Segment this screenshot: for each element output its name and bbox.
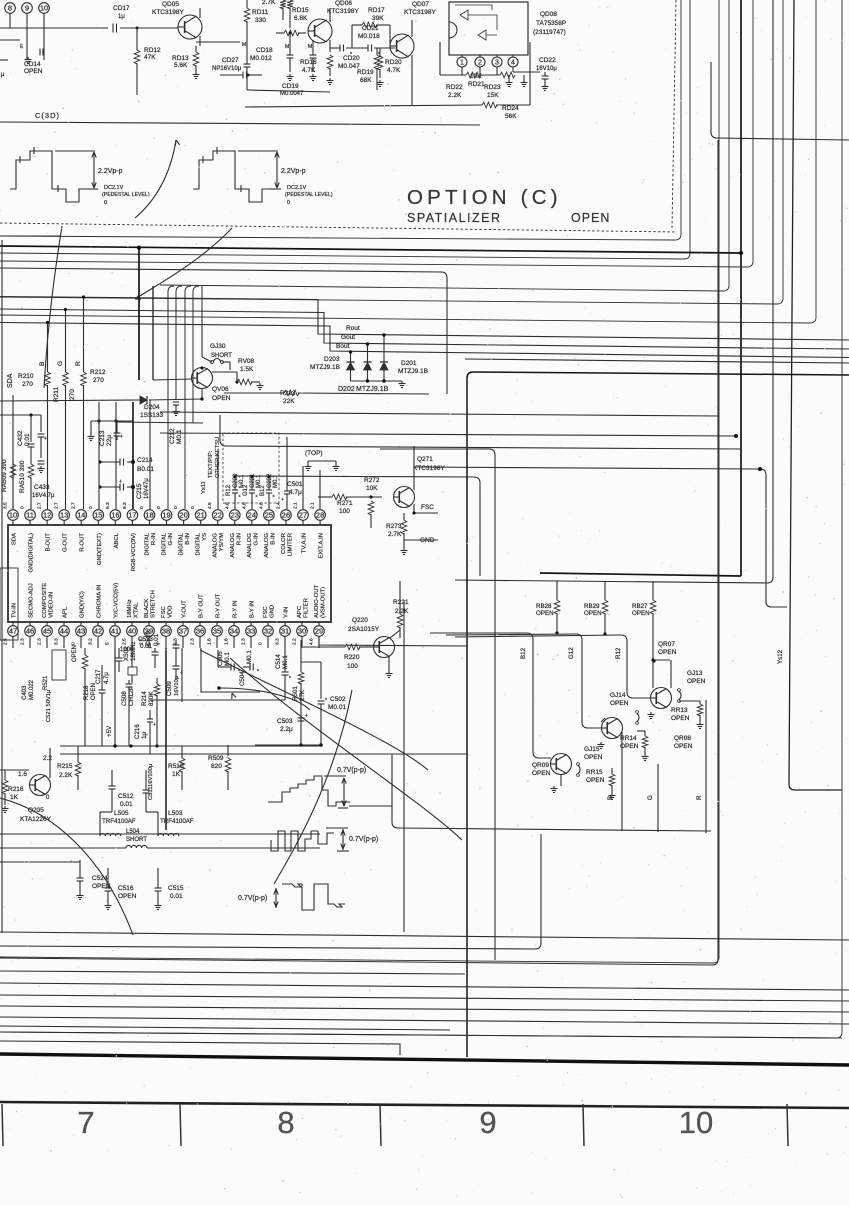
svg-text:16V10μ: 16V10μ <box>536 66 557 72</box>
svg-text:CD17: CD17 <box>113 5 130 12</box>
svg-text:COMPOSITE: COMPOSITE <box>42 583 48 618</box>
svg-text:D201: D201 <box>401 360 417 367</box>
svg-text:0: 0 <box>88 506 94 509</box>
svg-text:RR13: RR13 <box>671 707 688 714</box>
svg-text:6.8K: 6.8K <box>294 15 308 22</box>
svg-text:1SS133: 1SS133 <box>140 412 164 419</box>
svg-text:GJ30: GJ30 <box>210 343 226 350</box>
svg-text:M0.022: M0.022 <box>29 679 35 700</box>
svg-text:OPEN: OPEN <box>632 610 650 617</box>
svg-text:KTC3198Y: KTC3198Y <box>404 9 436 16</box>
svg-text:RD13: RD13 <box>172 55 189 62</box>
svg-text:2.1: 2.1 <box>293 502 299 509</box>
svg-text:(TOP): (TOP) <box>305 450 323 457</box>
svg-text:19: 19 <box>162 511 170 520</box>
svg-text:2.2Vp-p: 2.2Vp-p <box>98 168 123 175</box>
svg-text:KTC3198Y: KTC3198Y <box>327 8 359 15</box>
svg-text:R-IN: R-IN <box>236 533 242 545</box>
svg-text:41: 41 <box>111 627 119 636</box>
svg-text:820: 820 <box>211 763 222 770</box>
svg-text:Q220: Q220 <box>352 617 368 624</box>
svg-text:R212: R212 <box>90 369 106 376</box>
svg-text:100: 100 <box>339 508 350 515</box>
svg-text:42: 42 <box>94 627 102 636</box>
svg-text:R521: R521 <box>43 675 49 690</box>
svg-text:SHORT: SHORT <box>126 837 147 843</box>
svg-text:QR07: QR07 <box>658 641 675 648</box>
svg-text:31: 31 <box>281 627 289 636</box>
svg-text:0: 0 <box>139 506 145 509</box>
svg-text:RA509 390: RA509 390 <box>1 459 8 492</box>
svg-text:C216: C216 <box>134 724 141 739</box>
svg-text:26: 26 <box>282 511 290 520</box>
svg-text:OPEN: OPEN <box>674 743 693 750</box>
svg-text:38: 38 <box>162 627 170 636</box>
svg-text:0: 0 <box>173 506 179 509</box>
svg-text:TRF4100AF: TRF4100AF <box>160 818 194 825</box>
svg-text:21: 21 <box>196 511 204 520</box>
svg-text:RD15: RD15 <box>292 7 309 14</box>
svg-text:ANALOG: ANALOG <box>264 533 270 558</box>
svg-text:R221: R221 <box>393 599 409 606</box>
svg-text:SDA: SDA <box>7 373 14 388</box>
svg-text:B0.01: B0.01 <box>137 466 154 473</box>
svg-text:D203: D203 <box>324 356 340 363</box>
svg-text:MTZJ9.1B: MTZJ9.1B <box>398 368 428 375</box>
svg-text:3.2: 3.2 <box>88 638 94 645</box>
svg-text:CD22: CD22 <box>539 57 556 64</box>
svg-text:GND: GND <box>270 605 276 618</box>
svg-text:B-Y OUT: B-Y OUT <box>199 594 205 618</box>
svg-text:25: 25 <box>265 511 273 520</box>
svg-text:M: M <box>308 44 312 50</box>
svg-text:RD24: RD24 <box>502 105 519 112</box>
svg-text:DC2.1V: DC2.1V <box>287 185 307 191</box>
svg-text:QD08: QD08 <box>540 11 557 18</box>
svg-text:VDD: VDD <box>168 606 174 618</box>
svg-text:2.7K: 2.7K <box>388 531 402 538</box>
svg-text:D202: D202 <box>338 386 355 393</box>
svg-text:0.01: 0.01 <box>120 801 133 808</box>
svg-text:R: R <box>75 361 82 366</box>
svg-text:0.01: 0.01 <box>153 633 160 646</box>
svg-text:+: + <box>281 497 284 503</box>
svg-text:C502: C502 <box>330 696 346 703</box>
svg-text:QR08: QR08 <box>674 735 691 742</box>
svg-text:1: 1 <box>460 60 464 67</box>
svg-text:RB28: RB28 <box>536 603 552 610</box>
svg-text:B12: B12 <box>520 647 527 659</box>
svg-text:4.7μ: 4.7μ <box>104 672 110 684</box>
svg-text:G12: G12 <box>568 647 575 659</box>
svg-text:GND(DIGITAL): GND(DIGITAL) <box>29 533 35 573</box>
svg-text:TA75358P: TA75358P <box>536 20 566 27</box>
svg-text:COLOR: COLOR <box>281 533 287 554</box>
svg-text:R271: R271 <box>337 500 353 507</box>
svg-text:3: 3 <box>495 60 499 67</box>
svg-text:2.2μ: 2.2μ <box>280 726 293 733</box>
svg-text:OPEN: OPEN <box>532 770 551 777</box>
svg-text:2.5: 2.5 <box>122 638 128 645</box>
svg-text:CD18: CD18 <box>256 47 273 54</box>
svg-text:56K: 56K <box>505 113 517 120</box>
svg-text:46: 46 <box>26 627 34 636</box>
svg-text:B-IN: B-IN <box>270 533 276 545</box>
svg-text:Y-IN: Y-IN <box>284 607 290 618</box>
svg-text:7: 7 <box>77 1105 94 1140</box>
svg-text:4: 4 <box>511 60 515 67</box>
svg-text:G-IN: G-IN <box>253 533 259 545</box>
svg-text:0.01: 0.01 <box>170 893 183 900</box>
svg-text:4.7K: 4.7K <box>387 67 401 74</box>
svg-text:CHROMA IN: CHROMA IN <box>97 585 103 618</box>
svg-text:C217: C217 <box>96 669 102 684</box>
svg-text:MTZJ9.1B: MTZJ9.1B <box>310 364 340 371</box>
svg-text:2.3: 2.3 <box>20 638 26 645</box>
svg-text:37: 37 <box>179 627 187 636</box>
svg-text:Ys12: Ys12 <box>777 649 784 664</box>
svg-text:RB27: RB27 <box>632 603 648 610</box>
svg-text:5: 5 <box>105 642 111 645</box>
svg-text:2.2Vp-p: 2.2Vp-p <box>281 168 306 175</box>
svg-text:+: + <box>305 713 308 719</box>
svg-text:RD20: RD20 <box>385 59 402 66</box>
svg-text:TEXT/PIP:: TEXT/PIP: <box>208 450 214 478</box>
svg-text:R211: R211 <box>53 387 60 402</box>
svg-text:+: + <box>120 434 123 440</box>
svg-text:27: 27 <box>299 511 307 520</box>
svg-text:G-IN: G-IN <box>168 533 174 545</box>
svg-text:10: 10 <box>9 511 17 520</box>
svg-text:C501: C501 <box>287 481 303 488</box>
svg-text:TV-IN: TV-IN <box>12 603 18 618</box>
svg-text:R220: R220 <box>344 654 360 661</box>
svg-text:10: 10 <box>40 4 48 13</box>
svg-text:RA510 390: RA510 390 <box>19 460 26 493</box>
svg-text:OPEN: OPEN <box>658 649 677 656</box>
svg-text:9: 9 <box>479 1105 496 1140</box>
svg-text:DIGITAL: DIGITAL <box>162 532 168 555</box>
svg-text:47K: 47K <box>144 54 156 61</box>
svg-text:68K: 68K <box>360 77 372 84</box>
svg-text:GJ15: GJ15 <box>584 746 600 753</box>
svg-text:0: 0 <box>20 506 26 509</box>
svg-text:1.8: 1.8 <box>207 638 213 645</box>
svg-text:1μ: 1μ <box>118 14 125 20</box>
svg-text:VIDEO-IN: VIDEO-IN <box>49 592 55 618</box>
svg-text:OPEN: OPEN <box>610 700 629 707</box>
svg-text:18MHz: 18MHz <box>130 641 137 661</box>
svg-text:15K: 15K <box>487 92 499 99</box>
svg-text:20: 20 <box>179 511 187 520</box>
svg-text:M0.1: M0.1 <box>273 474 279 488</box>
svg-text:x: x <box>273 493 275 498</box>
svg-text:2.7: 2.7 <box>37 502 43 509</box>
svg-text:22K: 22K <box>283 398 295 405</box>
svg-text:18: 18 <box>145 511 153 520</box>
svg-text:DIGITAL: DIGITAL <box>144 532 150 555</box>
svg-text:2.2K: 2.2K <box>448 92 462 99</box>
svg-text:Ys11: Ys11 <box>201 481 207 494</box>
svg-text:33: 33 <box>247 627 255 636</box>
svg-text:KTC3198Y: KTC3198Y <box>152 9 184 16</box>
svg-text:22μ: 22μ <box>106 435 113 446</box>
svg-text:R214: R214 <box>141 691 148 706</box>
svg-text:QD07: QD07 <box>412 1 429 8</box>
svg-text:OPEN: OPEN <box>212 395 231 402</box>
svg-text:RD12: RD12 <box>144 47 161 54</box>
svg-text:2: 2 <box>478 60 482 67</box>
svg-text:OPEN: OPEN <box>536 610 554 617</box>
svg-text:C215: C215 <box>136 483 143 499</box>
svg-text:RD22: RD22 <box>446 84 463 91</box>
svg-text:μ: μ <box>1 72 5 78</box>
svg-text:16V10μ: 16V10μ <box>174 676 180 696</box>
svg-text:40: 40 <box>128 627 136 636</box>
svg-text:D204: D204 <box>144 404 160 411</box>
svg-text:KTC3198Y: KTC3198Y <box>413 465 445 472</box>
svg-text:QD06: QD06 <box>335 0 352 7</box>
svg-text:10K: 10K <box>366 485 378 492</box>
svg-text:4.8: 4.8 <box>258 502 264 509</box>
svg-text:Q271: Q271 <box>417 456 433 463</box>
svg-text:RD11: RD11 <box>252 9 269 16</box>
svg-text:0: 0 <box>104 200 107 206</box>
svg-text:47: 47 <box>9 627 17 636</box>
svg-text:1.5K: 1.5K <box>240 366 254 373</box>
svg-text:OPEN: OPEN <box>620 743 639 750</box>
svg-text:34: 34 <box>230 627 238 636</box>
svg-text:270: 270 <box>69 389 76 400</box>
svg-text:G12: G12 <box>243 484 249 496</box>
svg-text:GND(TEXT): GND(TEXT) <box>97 533 103 565</box>
svg-text:9: 9 <box>25 4 29 13</box>
svg-text:13: 13 <box>60 511 68 520</box>
svg-text:G: G <box>647 795 654 800</box>
svg-text:RGB-VCC(9V): RGB-VCC(9V) <box>131 533 137 571</box>
svg-text:x: x <box>289 674 291 679</box>
svg-text:C503: C503 <box>277 718 293 725</box>
svg-text:ANALOG: ANALOG <box>213 533 219 558</box>
svg-text:(PEDESTAL LEVEL): (PEDESTAL LEVEL) <box>102 192 150 198</box>
svg-text:R-Y IN: R-Y IN <box>233 600 239 618</box>
svg-text:RD19: RD19 <box>357 69 374 76</box>
svg-text:R215: R215 <box>57 763 73 770</box>
svg-text:C504: C504 <box>239 671 246 686</box>
svg-text:0.7V(p-p): 0.7V(p-p) <box>337 767 366 774</box>
svg-text:3.3: 3.3 <box>275 638 281 645</box>
svg-text:NP16V10μ: NP16V10μ <box>212 66 242 72</box>
svg-text:DIGITAL: DIGITAL <box>196 532 202 555</box>
svg-text:28: 28 <box>316 511 324 520</box>
svg-text:STRETCH: STRETCH <box>151 590 157 618</box>
svg-text:C403: C403 <box>22 685 28 700</box>
svg-text:0.7V(p-p): 0.7V(p-p) <box>349 836 378 843</box>
svg-text:24: 24 <box>248 511 256 520</box>
svg-text:C509: C509 <box>166 681 173 696</box>
svg-text:11: 11 <box>26 511 34 520</box>
svg-text:3.3: 3.3 <box>54 638 60 645</box>
svg-text:x: x <box>257 667 259 672</box>
svg-text:RR14: RR14 <box>620 735 637 742</box>
svg-text:FSC: FSC <box>263 605 269 618</box>
svg-text:2.7K: 2.7K <box>262 0 276 6</box>
svg-text:RR15: RR15 <box>586 769 603 776</box>
svg-text:C51116V100μ: C51116V100μ <box>148 764 154 800</box>
svg-text:B-OUT: B-OUT <box>46 533 52 552</box>
svg-text:2.4: 2.4 <box>275 502 281 509</box>
svg-text:8: 8 <box>8 4 12 13</box>
svg-text:QV06: QV06 <box>212 386 229 393</box>
svg-text:(VSM-OUT): (VSM-OUT) <box>321 587 327 618</box>
svg-text:1K: 1K <box>172 771 181 778</box>
svg-text:18MHz: 18MHz <box>127 599 133 618</box>
svg-text:Bout: Bout <box>336 343 350 350</box>
svg-text:0.7V(p-p): 0.7V(p-p) <box>238 895 267 902</box>
svg-text:2.3: 2.3 <box>37 638 43 645</box>
svg-text:C512: C512 <box>118 793 134 800</box>
svg-text:C433: C433 <box>34 484 50 491</box>
svg-text:+: + <box>153 722 156 728</box>
svg-text:2.7: 2.7 <box>54 502 60 509</box>
svg-text:G-OUT: G-OUT <box>63 533 69 552</box>
svg-text:12: 12 <box>43 511 51 520</box>
svg-text:DIGITAL: DIGITAL <box>179 532 185 555</box>
svg-text:2.3: 2.3 <box>190 638 196 645</box>
svg-text:1.8: 1.8 <box>224 638 230 645</box>
svg-text:x: x <box>325 696 327 701</box>
svg-text:RV08: RV08 <box>238 358 255 365</box>
svg-text:R216: R216 <box>8 786 24 793</box>
svg-text:C516: C516 <box>118 885 134 892</box>
svg-text:17: 17 <box>128 511 136 520</box>
svg-text:QR09: QR09 <box>532 762 549 769</box>
svg-text:4.8: 4.8 <box>224 502 230 509</box>
svg-text:R: R <box>696 795 703 800</box>
svg-text:B: B <box>607 796 614 800</box>
svg-text:R273: R273 <box>386 523 402 530</box>
svg-text:10: 10 <box>679 1105 713 1140</box>
svg-text:RD16: RD16 <box>300 59 317 66</box>
svg-text:R12: R12 <box>226 484 232 496</box>
svg-text:45: 45 <box>43 627 51 636</box>
svg-text:39K: 39K <box>372 15 384 22</box>
svg-text:ANALOG: ANALOG <box>230 533 236 558</box>
svg-text:22: 22 <box>214 511 222 520</box>
svg-text:43: 43 <box>77 627 85 636</box>
svg-text:15: 15 <box>94 511 102 520</box>
svg-text:X'TAL: X'TAL <box>134 602 140 618</box>
svg-text:2.2: 2.2 <box>292 638 298 645</box>
svg-text:2SA1015Y: 2SA1015Y <box>348 626 380 633</box>
svg-text:2.1: 2.1 <box>310 502 316 509</box>
svg-text:R509: R509 <box>208 755 224 762</box>
svg-text:APL: APL <box>63 606 69 618</box>
svg-text:M0.0047: M0.0047 <box>280 91 304 97</box>
svg-text:YS: YS <box>202 533 208 541</box>
svg-text:LIMITER: LIMITER <box>287 533 293 556</box>
svg-text:0: 0 <box>190 506 196 509</box>
svg-text:820K: 820K <box>148 691 155 706</box>
svg-text:C213: C213 <box>99 430 106 446</box>
svg-text:OPEN: OPEN <box>671 715 690 722</box>
svg-text:R501: R501 <box>292 686 299 701</box>
svg-text:0: 0 <box>156 506 162 509</box>
svg-text:OPEN: OPEN <box>571 211 610 225</box>
svg-text:GND(Y/C): GND(Y/C) <box>80 591 86 618</box>
svg-text:M: M <box>285 44 289 50</box>
svg-text:SPATIALIZER: SPATIALIZER <box>407 211 502 225</box>
svg-text:OPEN: OPEN <box>586 777 605 784</box>
svg-text:1μ: 1μ <box>141 732 148 739</box>
svg-text:BLACK: BLACK <box>144 599 150 618</box>
svg-text:AUDIO-OUT: AUDIO-OUT <box>314 585 320 618</box>
svg-text:1.6: 1.6 <box>18 771 27 778</box>
svg-text:M0.012: M0.012 <box>250 55 272 62</box>
svg-text:ABCL: ABCL <box>114 532 120 548</box>
svg-text:2.2: 2.2 <box>43 755 52 762</box>
svg-text:MTZJ9.1B: MTZJ9.1B <box>356 386 389 393</box>
svg-text:OPEN: OPEN <box>584 754 603 761</box>
svg-text:R510: R510 <box>168 763 184 770</box>
svg-text:SHORT: SHORT <box>211 353 232 359</box>
svg-text:C510: C510 <box>145 631 152 646</box>
svg-text:R-Y OUT: R-Y OUT <box>216 593 222 618</box>
svg-text:+5V: +5V <box>106 725 113 737</box>
svg-text:4.6: 4.6 <box>309 638 315 645</box>
svg-text:ANALOG: ANALOG <box>247 533 253 558</box>
svg-text:QD05: QD05 <box>162 1 179 8</box>
svg-text:2.9: 2.9 <box>3 638 9 645</box>
svg-text:16V47μ: 16V47μ <box>144 478 150 499</box>
svg-text:330: 330 <box>255 17 266 24</box>
svg-text:L503: L503 <box>168 810 183 817</box>
svg-text:C524: C524 <box>92 875 108 882</box>
svg-text:2.2K: 2.2K <box>59 772 73 779</box>
svg-text:TRF4100AF: TRF4100AF <box>102 818 136 825</box>
svg-text:R12: R12 <box>615 647 622 659</box>
svg-text:270: 270 <box>22 381 33 388</box>
svg-text:R210: R210 <box>18 373 34 380</box>
svg-text:CD27: CD27 <box>222 57 239 64</box>
svg-text:x: x <box>256 493 258 498</box>
svg-text:x: x <box>350 50 352 55</box>
svg-text:23: 23 <box>231 511 239 520</box>
svg-text:RD21: RD21 <box>468 81 485 88</box>
svg-text:FILTER: FILTER <box>304 598 310 618</box>
svg-text:36: 36 <box>196 627 204 636</box>
svg-text:(23119747): (23119747) <box>533 29 566 36</box>
svg-text:Rout: Rout <box>346 325 360 332</box>
svg-text:4.8: 4.8 <box>241 502 247 509</box>
svg-text:C521 50V1μ: C521 50V1μ <box>46 690 52 722</box>
svg-text:4.7K: 4.7K <box>302 67 316 74</box>
svg-text:4.7μ: 4.7μ <box>289 489 302 496</box>
svg-text:B-Y IN: B-Y IN <box>250 601 256 618</box>
svg-text:OPEN: OPEN <box>584 610 602 617</box>
svg-text:R-OUT: R-OUT <box>80 533 86 552</box>
svg-text:100: 100 <box>347 663 358 670</box>
svg-text:M0.1: M0.1 <box>246 650 253 664</box>
svg-text:35: 35 <box>213 627 221 636</box>
svg-text:OPEN: OPEN <box>687 678 706 685</box>
svg-text:+: + <box>119 479 122 485</box>
svg-text:C508: C508 <box>121 691 128 706</box>
svg-text:x: x <box>239 493 241 498</box>
svg-text:OTHER:KETSU: OTHER:KETSU <box>215 437 221 478</box>
svg-text:14: 14 <box>77 511 85 520</box>
svg-text:EXIT.A.IN: EXIT.A.IN <box>319 533 325 559</box>
